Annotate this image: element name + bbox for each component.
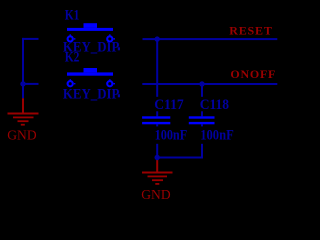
- svg-text:C118: C118: [200, 97, 229, 113]
- svg-text:100nF: 100nF: [200, 128, 234, 144]
- C118 designator label: [199, 97, 232, 112]
- wire K2 left stub: [22, 83, 39, 85]
- K2 pin number mark: [118, 94, 120, 97]
- wire C117 upper drop: [156, 39, 158, 116]
- svg-text:GND: GND: [141, 188, 170, 203]
- wire bottom cap bus: [156, 157, 203, 159]
- wire ONOFF net: [142, 83, 277, 85]
- wire left vertical bus: [22, 38, 24, 98]
- ground symbol bottom: [142, 158, 173, 185]
- junction dot at left bus / K2 stub: [20, 81, 25, 86]
- svg-text:ONOFF: ONOFF: [230, 67, 275, 81]
- svg-text:K2: K2: [65, 50, 80, 66]
- junction dot RESET / C117: [155, 36, 160, 41]
- C117 designator label: [153, 97, 186, 112]
- svg-text:K1: K1: [65, 8, 80, 24]
- svg-text:RESET: RESET: [229, 24, 272, 38]
- switch K1: [67, 23, 115, 41]
- svg-text:C117: C117: [154, 97, 184, 113]
- wire C118 upper drop: [201, 84, 203, 116]
- capacitor C117: [142, 116, 170, 124]
- wire C118 lower drop: [201, 124, 203, 158]
- wire RESET net: [143, 38, 278, 40]
- C118 value label 100nF: [199, 126, 236, 143]
- svg-text:100nF: 100nF: [155, 128, 188, 144]
- junction dot bottom bus / ground: [155, 155, 160, 160]
- svg-text:KEY_DIP: KEY_DIP: [63, 87, 120, 103]
- wire K1 left stub: [22, 38, 39, 40]
- K1 pin number mark: [118, 47, 120, 50]
- C117 value label 100nF: [153, 126, 189, 143]
- capacitor C118: [189, 116, 215, 124]
- svg-text:GND: GND: [7, 129, 36, 144]
- ground symbol left: [8, 98, 39, 125]
- junction dot ONOFF / C118: [199, 81, 204, 86]
- switch K2: [67, 68, 115, 86]
- wire C117 lower drop: [156, 124, 158, 158]
